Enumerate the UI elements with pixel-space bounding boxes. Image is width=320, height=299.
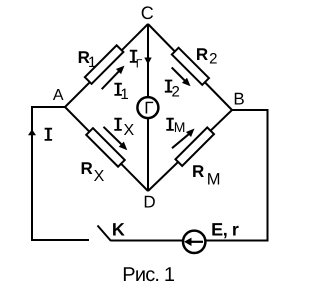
resistor R1	[85, 45, 124, 84]
resistor R2	[172, 48, 209, 85]
svg-text:Г: Г	[136, 57, 143, 71]
svg-text:X: X	[124, 122, 135, 139]
label current I_G	[130, 50, 143, 71]
current arrow I1	[102, 66, 125, 90]
wire galvanometer to D	[147, 118, 149, 191]
battery E,r	[183, 231, 205, 253]
label RM	[192, 162, 221, 188]
label R2	[196, 45, 218, 68]
svg-text:M: M	[207, 170, 221, 188]
svg-text:D: D	[143, 193, 155, 212]
label R1	[78, 48, 97, 71]
current arrow IM	[172, 129, 195, 149]
wire A to left rail and bottom-left segment	[32, 107, 89, 240]
svg-text:R: R	[81, 159, 93, 178]
label current I2	[165, 80, 180, 101]
svg-text:X: X	[94, 168, 105, 185]
wire battery to right rail and up to B	[207, 110, 268, 241]
svg-text:C: C	[141, 3, 154, 23]
wire C to galvanometer	[147, 24, 149, 97]
svg-text:R: R	[196, 45, 208, 64]
svg-text:A: A	[53, 87, 64, 104]
svg-text:B: B	[233, 90, 244, 109]
current arrow I_G on galvanometer branch	[144, 58, 151, 65]
switch K blade	[98, 226, 112, 242]
label RX	[81, 159, 105, 185]
svg-text:R: R	[192, 162, 204, 181]
wire A-C	[65, 24, 148, 107]
svg-text:M: M	[174, 119, 186, 135]
svg-text:2: 2	[172, 83, 180, 100]
svg-text:K: K	[112, 220, 125, 240]
svg-text:1: 1	[120, 86, 128, 103]
svg-text:Рис. 1: Рис. 1	[122, 264, 175, 286]
wire switch to battery	[111, 240, 183, 242]
label current I1	[114, 83, 128, 103]
svg-text:1: 1	[88, 54, 96, 71]
svg-text:Г: Г	[144, 99, 153, 118]
resistor RX	[86, 128, 125, 167]
svg-text:2: 2	[209, 51, 217, 68]
current arrow I on left wire	[28, 129, 36, 135]
label current IX	[114, 118, 134, 139]
current arrow I2	[172, 68, 191, 87]
wire A-D	[65, 107, 148, 191]
wire C-B	[148, 24, 232, 110]
resistor RM	[175, 127, 214, 166]
galvanometer U1	[137, 97, 158, 118]
current arrow IX	[104, 127, 128, 150]
label current I	[45, 128, 53, 141]
wire D-B	[148, 110, 232, 191]
svg-text:E, r: E, r	[211, 220, 239, 240]
label current IM	[166, 118, 185, 135]
